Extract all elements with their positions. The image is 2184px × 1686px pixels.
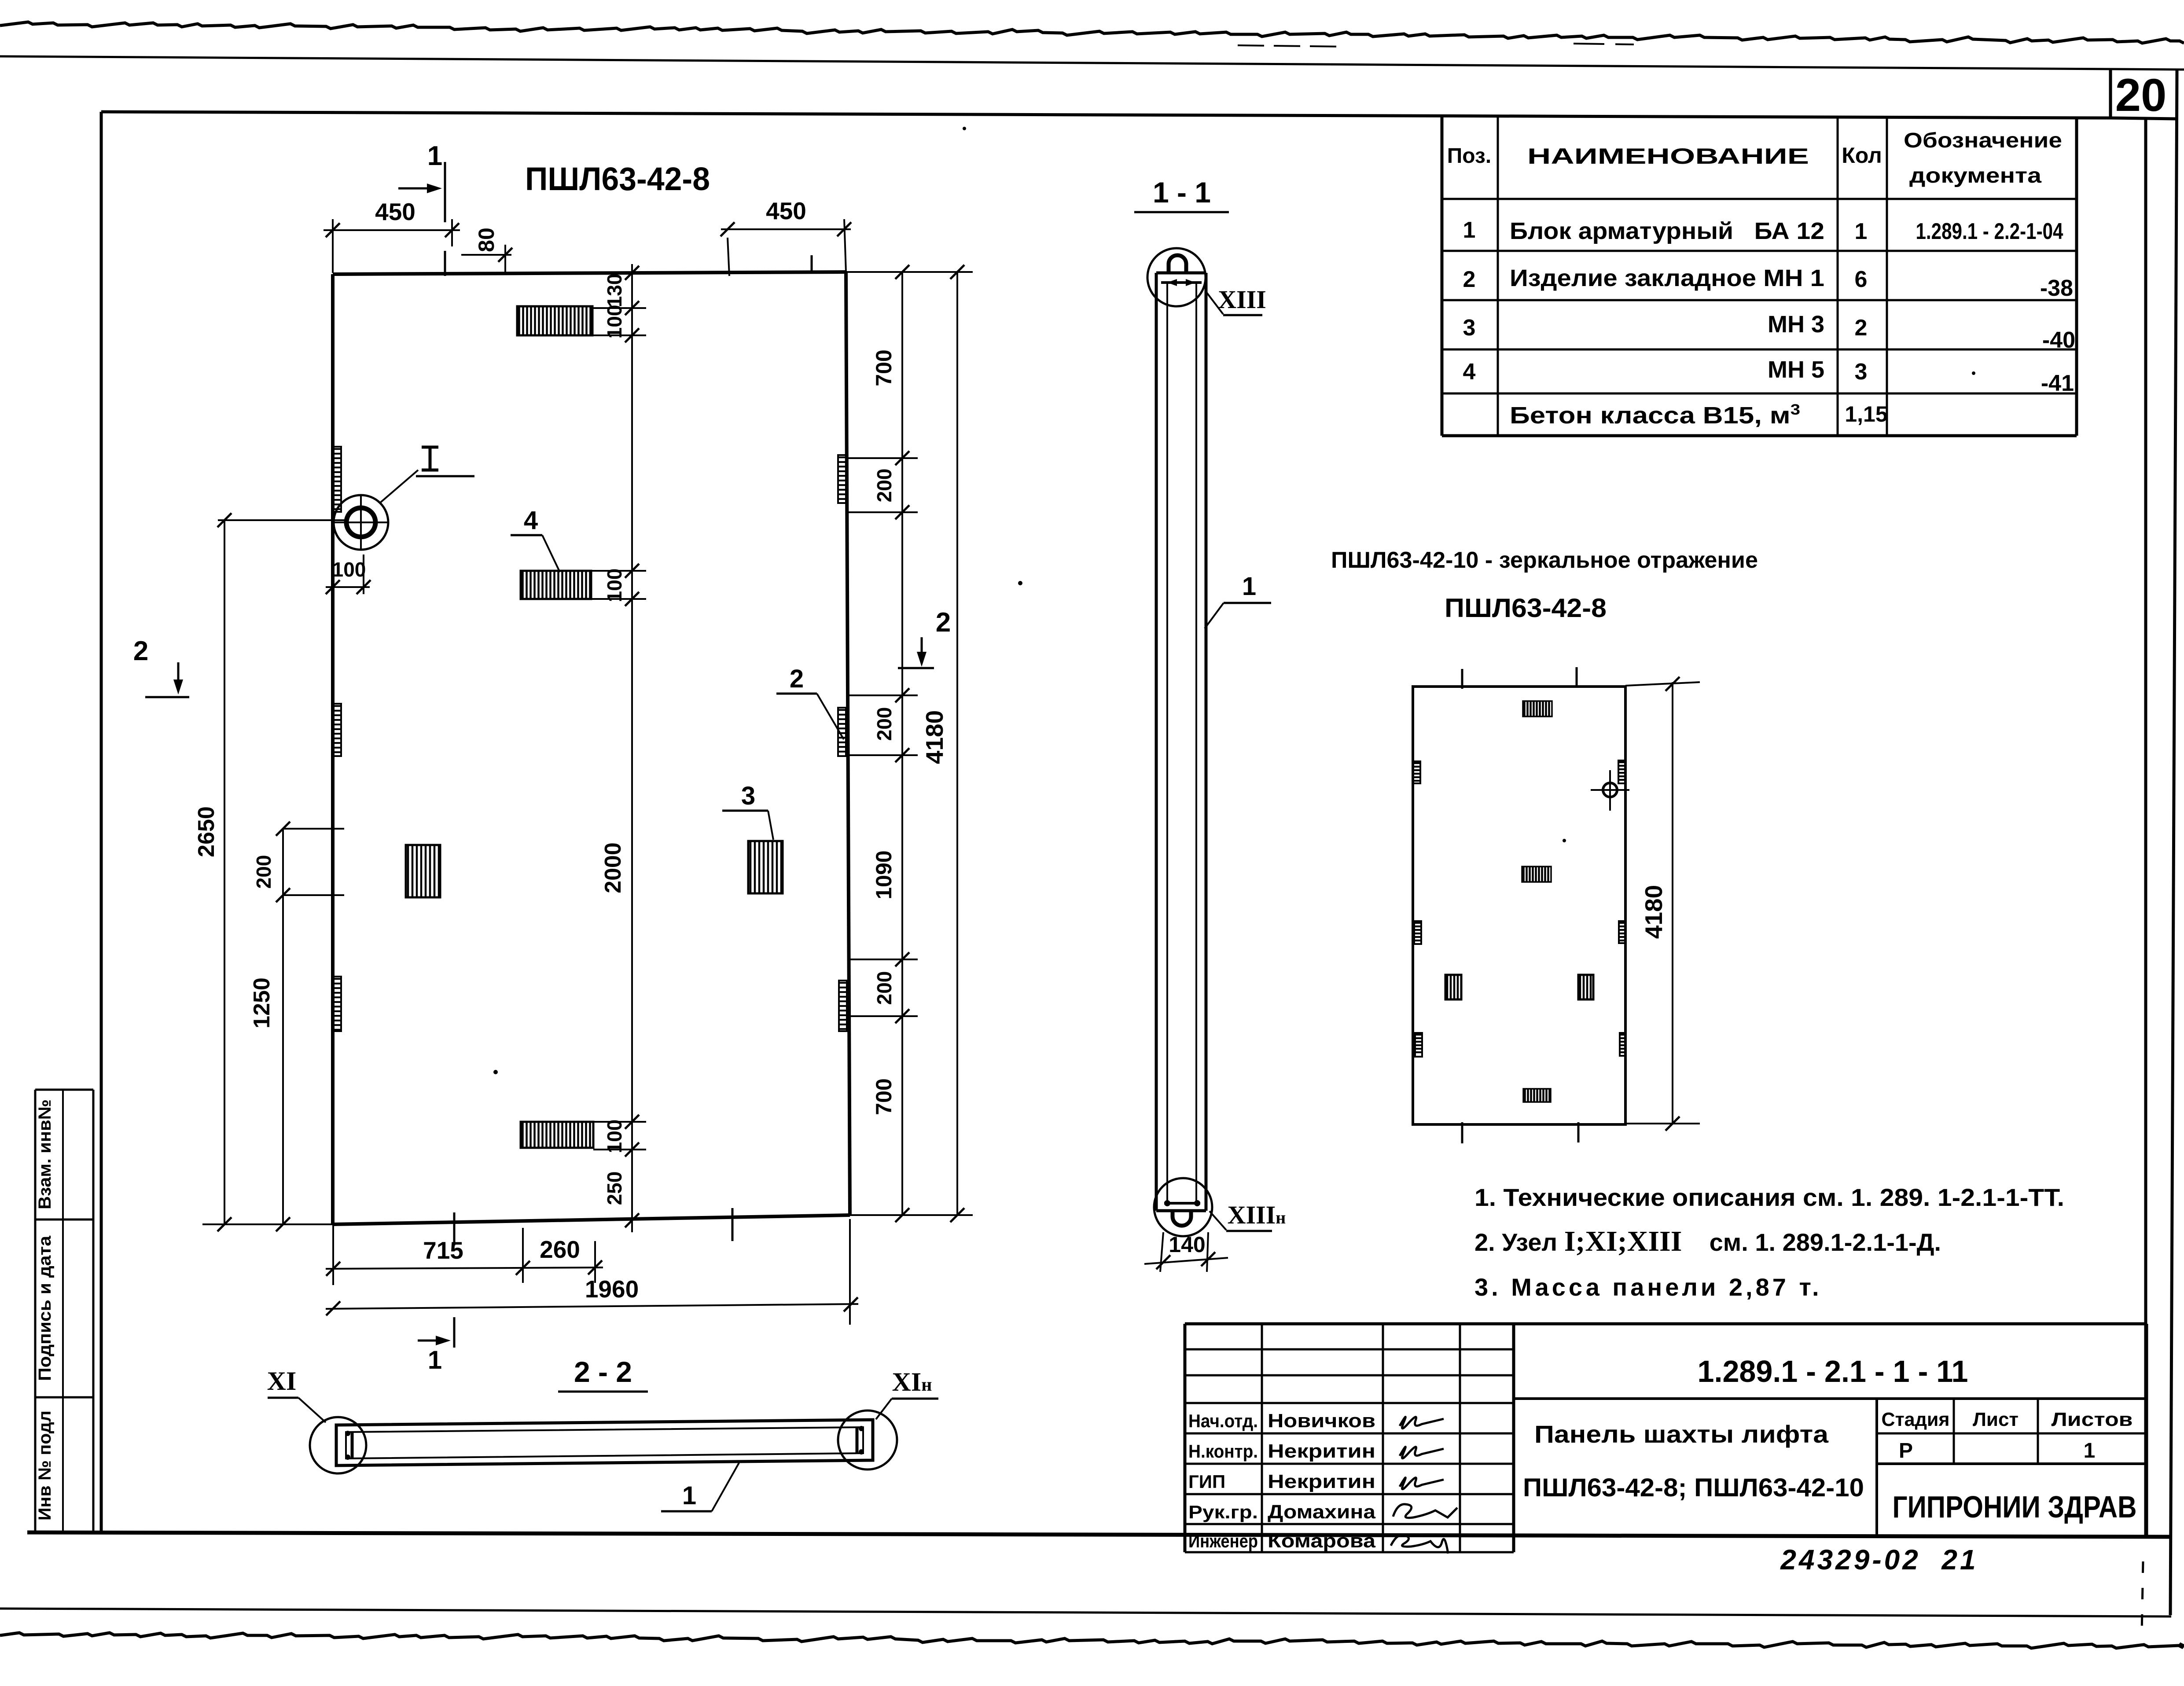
svg-text:4: 4 [524, 506, 538, 535]
svg-text:450: 450 [766, 197, 806, 224]
svg-text:100: 100 [603, 569, 626, 602]
svg-text:1: 1 [1242, 572, 1256, 601]
svg-text:-40: -40 [2042, 327, 2075, 353]
svg-text:2: 2 [1855, 315, 1868, 341]
svg-text:1: 1 [682, 1481, 696, 1510]
svg-text:Поз.: Поз. [1447, 144, 1491, 168]
svg-text:80: 80 [474, 228, 499, 252]
svg-text:XI: XI [267, 1366, 297, 1396]
svg-text:ГИПРОНИИ ЗДРАВ: ГИПРОНИИ ЗДРАВ [1893, 1490, 2137, 1524]
svg-text:2650: 2650 [194, 806, 219, 857]
svg-text:1.289.1 - 2.2-1-04: 1.289.1 - 2.2-1-04 [1916, 219, 2063, 244]
svg-text:2000: 2000 [600, 842, 626, 893]
svg-text:документа: документа [1909, 164, 2041, 187]
svg-text:Листов: Листов [2052, 1409, 2133, 1430]
svg-text:Инженер: Инженер [1188, 1531, 1258, 1551]
svg-text:200: 200 [873, 469, 896, 503]
svg-text:1090: 1090 [871, 850, 896, 899]
svg-text:2: 2 [133, 636, 148, 666]
svg-text:2 - 2: 2 - 2 [574, 1355, 632, 1388]
svg-text:1960: 1960 [585, 1275, 639, 1303]
svg-text:Изделие закладное МН 1: Изделие закладное МН 1 [1510, 265, 1824, 291]
svg-text:XIII: XIII [1218, 285, 1266, 314]
svg-text:Лист: Лист [1973, 1409, 2019, 1430]
svg-text:1250: 1250 [249, 977, 275, 1028]
svg-text:1: 1 [2084, 1439, 2096, 1462]
svg-text:-38: -38 [2040, 275, 2073, 301]
svg-text:1: 1 [428, 1346, 442, 1374]
svg-text:1.289.1 - 2.1 - 1 - 11: 1.289.1 - 2.1 - 1 - 11 [1698, 1354, 1968, 1388]
svg-text:Некритин: Некритин [1268, 1440, 1375, 1462]
svg-text:200: 200 [252, 855, 275, 889]
svg-text:1: 1 [1855, 219, 1868, 244]
svg-text:450: 450 [375, 198, 415, 225]
svg-text:-41: -41 [2041, 371, 2074, 396]
svg-text:1 - 1: 1 - 1 [1153, 176, 1211, 209]
svg-text:100: 100 [603, 1120, 626, 1153]
svg-text:Нач.отд.: Нач.отд. [1188, 1411, 1258, 1431]
svg-text:2. Узел I;XI;XIII см. 1. 28: 2. Узел I;XI;XIII см. 1. 289.1-2.1-1-Д. [1474, 1225, 1941, 1257]
svg-text:6: 6 [1855, 267, 1868, 292]
svg-text:Кол: Кол [1842, 143, 1882, 168]
svg-text:4: 4 [1463, 359, 1476, 385]
svg-text:1. Технические описания см. 1.: 1. Технические описания см. 1. 289. 1-2.… [1474, 1183, 2064, 1211]
svg-text:250: 250 [603, 1172, 626, 1205]
svg-text:100: 100 [332, 558, 366, 581]
svg-text:130: 130 [603, 274, 626, 308]
svg-text:Панель шахты лифта: Панель шахты лифта [1534, 1420, 1829, 1448]
svg-text:ГИП: ГИП [1188, 1471, 1225, 1492]
svg-text:700: 700 [871, 1078, 896, 1115]
svg-text:Некритин: Некритин [1268, 1471, 1375, 1492]
svg-text:Н.контр.: Н.контр. [1188, 1441, 1258, 1462]
svg-text:700: 700 [871, 349, 896, 386]
svg-text:1: 1 [427, 141, 442, 171]
svg-text:МН 3: МН 3 [1768, 311, 1824, 338]
svg-text:Р: Р [1899, 1439, 1913, 1462]
svg-text:715: 715 [423, 1237, 463, 1264]
svg-text:3: 3 [741, 782, 755, 810]
svg-text:Бетон класса В15, м3: Бетон класса В15, м3 [1510, 401, 1800, 429]
svg-text:24329-02 21: 24329-02 21 [1780, 1544, 1978, 1576]
svg-text:3. Масса панели 2,87 т.: 3. Масса панели 2,87 т. [1474, 1273, 1822, 1301]
svg-text:2: 2 [936, 607, 951, 638]
svg-text:МН 5: МН 5 [1768, 356, 1824, 383]
svg-text:140: 140 [1169, 1232, 1205, 1257]
svg-text:Стадия: Стадия [1882, 1409, 1950, 1430]
svg-text:2: 2 [790, 665, 804, 693]
svg-text:Рук.гр.: Рук.гр. [1188, 1502, 1258, 1522]
svg-text:4180: 4180 [1640, 885, 1667, 939]
svg-text:Взам. инв№: Взам. инв№ [35, 1099, 55, 1209]
svg-text:2: 2 [1463, 267, 1476, 292]
svg-text:1,15: 1,15 [1845, 402, 1887, 426]
svg-text:3: 3 [1855, 359, 1868, 385]
svg-text:3: 3 [1463, 315, 1476, 341]
svg-text:Новичков: Новичков [1268, 1410, 1375, 1432]
svg-text:Домахина: Домахина [1268, 1501, 1376, 1523]
svg-text:ПШЛ63-42-10 - зеркальное отраж: ПШЛ63-42-10 - зеркальное отражение [1331, 547, 1758, 573]
svg-text:20: 20 [2115, 70, 2167, 121]
svg-text:ПШЛ63-42-8; ПШЛ63-42-10: ПШЛ63-42-8; ПШЛ63-42-10 [1523, 1473, 1864, 1502]
svg-text:ПШЛ63-42-8: ПШЛ63-42-8 [525, 161, 710, 197]
svg-text:260: 260 [540, 1236, 580, 1263]
svg-text:ПШЛ63-42-8: ПШЛ63-42-8 [1445, 593, 1607, 623]
svg-text:100: 100 [603, 305, 626, 339]
svg-text:Комарова: Комарова [1268, 1530, 1376, 1552]
svg-text:Подпись и дата: Подпись и дата [35, 1235, 55, 1381]
svg-text:Блок арматурный БА 12: Блок арматурный БА 12 [1510, 218, 1824, 244]
svg-text:Обозначение: Обозначение [1904, 129, 2062, 152]
svg-text:200: 200 [873, 707, 896, 741]
svg-text:НАИМЕНОВАНИЕ: НАИМЕНОВАНИЕ [1527, 144, 1809, 169]
svg-text:4180: 4180 [921, 710, 948, 764]
svg-text:200: 200 [873, 971, 896, 1005]
svg-text:Инв № подл: Инв № подл [35, 1411, 55, 1521]
svg-text:1: 1 [1463, 217, 1476, 243]
